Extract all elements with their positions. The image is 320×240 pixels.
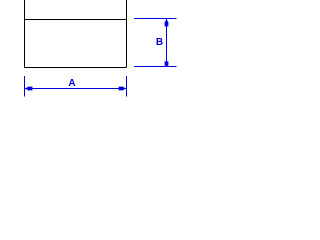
plate right edge [126, 0, 128, 68]
dimension A line [25, 88, 127, 90]
dimension A left arrowhead [25, 87, 33, 91]
dimension A right arrowhead [119, 87, 127, 91]
svg-text:B: B [156, 37, 163, 48]
svg-text:A: A [68, 78, 75, 89]
plate left edge [24, 0, 26, 68]
dimension A right extension line [126, 76, 128, 97]
dimension B top arrowhead [165, 19, 169, 27]
dimension B bottom extension line [134, 66, 177, 68]
dimension B bottom arrowhead [165, 61, 169, 66]
dimension B line [166, 19, 168, 67]
dimension A left extension line [24, 76, 26, 97]
plate bottom edge [25, 67, 127, 69]
plate top edge [25, 19, 127, 21]
dimension B top extension line [134, 18, 177, 20]
